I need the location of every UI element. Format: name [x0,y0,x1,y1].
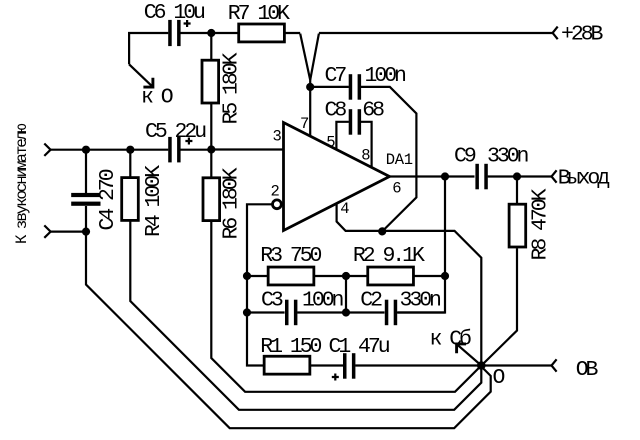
capacitor C4 [71,193,100,197]
capacitor C3 [285,300,289,326]
wire arrow to common (k O) [129,64,152,86]
wire input to C5 [51,149,169,151]
wire R1 right to C1 [310,364,343,366]
svg-text:+28В: +28В [561,23,604,47]
capacitor C7 [349,74,353,100]
terminal 0V chevron [552,359,557,371]
wire V right diagonal to pin7 node [310,34,319,80]
wire shield to C4 node [51,231,86,233]
node junction pin4/C7C8 [378,227,386,235]
svg-text:ОВ: ОВ [576,358,599,382]
capacitor C9 [475,164,479,190]
resistor R1 [264,356,310,374]
wire C9 right to output terminal [488,175,552,177]
svg-text:Выход: Выход [558,167,609,191]
node junction input/R4 [126,146,134,154]
svg-text:К звукоснимателю: К звукоснимателю [13,123,31,244]
resistor R5 [210,33,212,60]
wire R3 left [247,275,268,277]
pin 2 open circle [273,200,282,209]
wire C4 top [85,150,87,193]
svg-text:C4 270: C4 270 [96,169,120,230]
wire pin5 bracket [336,122,349,150]
terminal Vyhod chevron [552,170,557,182]
wire ground line A from R6 [211,221,481,392]
wire pin4 lead [337,205,482,366]
svg-text:к Сб: к Сб [430,328,472,352]
node junction C9/R8 [513,172,521,180]
wire C5 right to op-amp pin3 node [180,149,211,151]
svg-text:6: 6 [392,180,401,198]
wire pin3 [211,148,283,150]
wire R2 left [346,275,368,277]
svg-text:330n: 330n [487,144,529,168]
node junction input/C4 [82,146,90,154]
node junction C5/R5/R6/pin3 [207,145,215,153]
node common O [477,361,486,370]
wire V left diagonal to pin7 node [300,34,310,87]
node junction shield/C4 [82,228,90,236]
wire R3 right [314,275,346,277]
svg-text:100n: 100n [302,289,344,313]
node junction mid C3C2 [342,308,350,316]
resistor R6 [210,150,212,177]
wire pin7 vertical [309,87,311,136]
resistor R3 [268,267,314,285]
svg-text:R8 470K: R8 470K [529,188,553,260]
wire C4 bottom [85,206,87,232]
wire pin8 bracket [361,122,372,168]
wire R7 right to rail V [284,32,300,34]
node junction mid R3R2 [342,272,350,280]
resistor R2 [368,267,414,285]
svg-text:C2: C2 [360,289,382,313]
svg-text:4: 4 [340,200,349,218]
svg-text:R5 180K: R5 180K [220,52,244,124]
wire C3 left [247,311,285,313]
wire ground line C from C4/shield [86,232,491,429]
wire mid vertical [345,276,347,313]
node junction C3 left [243,308,251,316]
wire pin7 node to C7 [310,86,349,88]
op-amp DA1 triangle [284,123,390,231]
resistor R8 [516,177,518,204]
capacitor C5 [168,137,172,163]
node junction R3/C3 left [243,272,251,280]
resistor R7 [239,24,285,42]
wire R2 right [414,275,445,277]
wire output pin6 [390,175,475,177]
svg-text:R7 10K: R7 10K [228,2,290,26]
svg-text:R1 150: R1 150 [260,335,321,359]
wire arrow to C6 (k C6) [458,345,482,366]
svg-text:3: 3 [273,128,282,146]
resistor R4 [129,150,131,178]
svg-text:к О: к О [141,86,173,110]
svg-text:C7: C7 [325,64,347,88]
wire C3 right [297,311,346,313]
svg-text:C3: C3 [261,289,283,313]
wire +28V rail [319,32,553,34]
polarity plus of C5 [185,138,192,145]
node junction output/feedback [441,172,449,180]
wire C6 left to corner and down [129,33,168,64]
wire pin2 to feedback left rail [247,204,273,365]
svg-text:2: 2 [271,183,280,201]
capacitor C2 [385,300,389,326]
wire C7 right down to pin4 net [361,87,416,232]
node junction R2 right [441,272,449,280]
wire C6 right to R7 left [180,32,238,34]
capacitor C8 [349,109,353,135]
wire C2 left [346,311,385,313]
polarity plus of C6 [184,20,191,27]
svg-text:R3 750: R3 750 [260,244,321,268]
svg-text:C9: C9 [454,144,476,168]
capacitor C6 [168,20,172,46]
wire C1 right to 0V terminal [355,364,551,366]
svg-text:330n: 330n [400,289,442,313]
svg-text:C5 22u: C5 22u [145,120,206,144]
node junction pin7/C7 [306,83,314,91]
svg-text:DA1: DA1 [386,151,413,169]
svg-text:68: 68 [362,98,384,122]
svg-text:C6 10u: C6 10u [144,1,205,25]
terminal input signal chevron [44,144,50,156]
terminal input shield chevron [44,225,50,237]
svg-text:R2 9.1K: R2 9.1K [353,244,425,268]
svg-text:C8: C8 [325,98,347,122]
wire feedback vertical from output [398,177,445,313]
svg-text:R4 100K: R4 100K [142,165,166,237]
capacitor C1 [343,353,347,379]
svg-text:100n: 100n [365,64,407,88]
node junction C6/R5/R7 [207,29,215,37]
pin 2 stub wire [281,203,283,205]
polarity plus of C1 [332,374,339,381]
wire ground line B from R4 [130,222,481,410]
wire C2 right [397,311,445,313]
terminal +28V chevron [553,27,558,40]
svg-text:R6 180K: R6 180K [220,167,244,239]
svg-text:C1 47u: C1 47u [329,335,390,359]
